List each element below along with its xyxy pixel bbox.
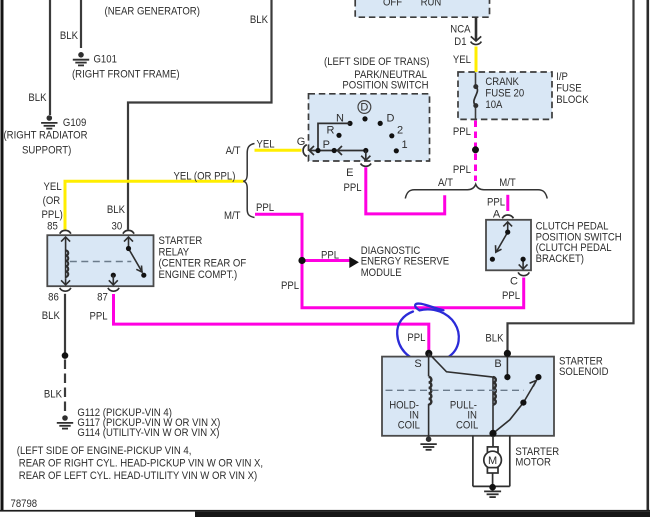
wire BLK from top right to solenoid B	[508, 0, 634, 352]
wire BLK to G101	[80, 0, 82, 48]
ground G112/G117/G114	[57, 415, 73, 428]
arrow left at K terminal	[309, 146, 314, 155]
svg-text:COIL: COIL	[398, 420, 420, 432]
contact dot N	[347, 121, 352, 126]
relay 87 contact with arrow	[111, 273, 116, 278]
svg-text:D1: D1	[454, 36, 466, 48]
starter motor frame	[473, 436, 510, 487]
svg-text:G109: G109	[63, 117, 86, 129]
svg-text:PPL: PPL	[281, 280, 299, 292]
blue hand-drawn circle around PPL	[397, 304, 459, 363]
connector arc A	[502, 215, 513, 218]
svg-text:COIL: COIL	[456, 420, 478, 432]
bottom page border line	[0, 510, 650, 512]
ignition switch box (top, cut off)	[355, 0, 489, 17]
svg-text:BLK: BLK	[42, 310, 61, 322]
wire YEL A/T branch to park/neutral switch	[255, 149, 302, 152]
contact dot 2	[389, 133, 394, 138]
svg-text:P: P	[323, 139, 330, 151]
left page border	[1, 0, 4, 511]
relay coil	[61, 237, 70, 285]
svg-text:STARTER: STARTER	[159, 235, 203, 247]
svg-text:SOLENOID: SOLENOID	[559, 366, 609, 378]
svg-text:BLK: BLK	[44, 389, 63, 401]
svg-text:PPL: PPL	[453, 126, 471, 138]
node junction on 86 wire	[62, 352, 69, 359]
ground G101	[73, 52, 89, 65]
svg-text:BLOCK: BLOCK	[556, 94, 589, 106]
svg-text:G101: G101	[94, 53, 117, 65]
wire BLK dashed to grounds	[64, 360, 66, 415]
contact dot R	[336, 133, 341, 138]
relay internal dashed line	[70, 261, 132, 263]
svg-text:SUPPORT): SUPPORT)	[22, 144, 71, 156]
solenoid switch	[493, 357, 537, 434]
wire PPL from P/N switch E	[366, 167, 445, 214]
svg-text:D: D	[360, 102, 368, 114]
svg-text:PPL: PPL	[256, 202, 274, 214]
svg-text:(RIGHT RADIATOR: (RIGHT RADIATOR	[4, 130, 88, 142]
svg-text:ENERGY RESERVE: ENERGY RESERVE	[361, 256, 450, 268]
svg-text:B: B	[494, 358, 501, 370]
svg-text:ENGINE COMPT.): ENGINE COMPT.)	[159, 269, 238, 281]
wire YEL D1 to fuse block	[475, 47, 478, 73]
wire switch common line	[310, 150, 366, 152]
connector arc 87	[108, 288, 119, 291]
svg-text:YEL: YEL	[44, 181, 62, 193]
park/neutral position switch box	[309, 94, 430, 161]
hold-in coil	[429, 353, 432, 437]
circled D indicator	[358, 101, 371, 114]
svg-text:R: R	[327, 125, 335, 137]
contact dot 1	[394, 148, 399, 153]
svg-text:YEL (OR PPL): YEL (OR PPL)	[174, 170, 236, 182]
svg-text:REAR OF RIGHT CYL. HEAD-PICKUP: REAR OF RIGHT CYL. HEAD-PICKUP VIN W OR …	[19, 457, 263, 469]
wire YEL relay 85 feed	[65, 181, 244, 229]
fuse CRANK FUSE 20 10A	[475, 73, 477, 85]
connector E arc	[361, 164, 372, 167]
svg-text:PPL: PPL	[343, 182, 361, 194]
svg-text:NCA: NCA	[450, 24, 471, 36]
svg-text:PPL: PPL	[487, 196, 505, 208]
wire from ignition switch	[475, 17, 478, 40]
svg-text:BLK: BLK	[107, 204, 126, 216]
svg-text:30: 30	[112, 221, 123, 233]
svg-text:CRANK: CRANK	[485, 76, 519, 88]
svg-text:(LEFT SIDE OF ENGINE-PICKUP VI: (LEFT SIDE OF ENGINE-PICKUP VIN 4,	[17, 445, 192, 457]
wire branch from N contact	[318, 123, 350, 150]
node junction with N branch	[315, 148, 320, 153]
I/P fuse block box	[458, 72, 552, 119]
svg-text:FUSE 20: FUSE 20	[485, 88, 524, 100]
node E junction	[363, 148, 368, 153]
svg-text:POSITION SWITCH: POSITION SWITCH	[342, 80, 428, 92]
svg-text:2: 2	[397, 125, 403, 137]
svg-text:87: 87	[97, 292, 108, 304]
ground G109	[41, 115, 57, 128]
svg-text:M: M	[488, 455, 497, 467]
node junction pull-in to motor	[489, 430, 496, 437]
wire BLK from top to relay terminal 30	[128, 0, 272, 230]
svg-text:BLK: BLK	[60, 30, 79, 42]
svg-text:C: C	[510, 276, 518, 288]
contact dot P	[332, 148, 337, 153]
svg-text:PPL: PPL	[502, 290, 520, 302]
wire BLK to G109	[49, 0, 51, 115]
svg-text:FUSE: FUSE	[556, 83, 582, 95]
node junction motor to ground	[489, 484, 496, 491]
svg-text:85: 85	[47, 221, 58, 233]
svg-text:PPL: PPL	[407, 332, 425, 344]
right page border	[647, 0, 650, 510]
svg-text:N: N	[336, 112, 344, 124]
svg-text:PPL): PPL)	[42, 209, 63, 221]
node S terminal	[425, 350, 432, 357]
clutch pedal position switch box	[486, 220, 531, 270]
svg-text:BLK: BLK	[28, 92, 47, 104]
connector K arc	[303, 145, 307, 157]
brace split A/T / M/T (under fuse)	[405, 184, 547, 198]
node junction to DERM	[298, 257, 305, 264]
contact dot D	[378, 121, 383, 126]
wire BLK from 86 down	[64, 294, 66, 354]
svg-text:PPL: PPL	[453, 164, 471, 176]
svg-text:(NEAR GENERATOR): (NEAR GENERATOR)	[105, 6, 200, 18]
svg-text:YEL: YEL	[453, 54, 471, 66]
wire PPL branch to DERM	[302, 259, 350, 262]
pull-in coil with feed from S	[429, 353, 496, 433]
svg-text:RUN: RUN	[421, 0, 442, 8]
connector arc 85	[60, 230, 71, 233]
svg-text:E: E	[346, 167, 353, 179]
wire down to E with arrow	[365, 151, 367, 160]
ground below hold-in coil	[420, 436, 436, 449]
node B terminal	[504, 350, 511, 357]
wire PPL dashed below fuse	[474, 121, 477, 182]
svg-text:86: 86	[48, 292, 59, 304]
svg-text:BRACKET): BRACKET)	[536, 253, 584, 265]
svg-text:(RIGHT FRONT FRAME): (RIGHT FRONT FRAME)	[72, 69, 180, 81]
svg-text:REAR OF LEFT CYL. HEAD-UTILITY: REAR OF LEFT CYL. HEAD-UTILITY VIN W OR …	[19, 470, 257, 482]
svg-text:MOTOR: MOTOR	[515, 457, 551, 469]
svg-text:D: D	[387, 112, 395, 124]
svg-text:(LEFT SIDE OF TRANS): (LEFT SIDE OF TRANS)	[324, 56, 430, 68]
connector arc 30	[123, 230, 134, 233]
connector arc 86	[60, 288, 71, 291]
arrow left mid line	[337, 146, 342, 155]
solenoid internal dashed line	[386, 389, 525, 391]
svg-text:I/P: I/P	[556, 71, 568, 83]
svg-text:(CENTER REAR OF: (CENTER REAR OF	[159, 258, 247, 270]
svg-text:78798: 78798	[11, 498, 38, 510]
connector arc C	[518, 272, 529, 275]
svg-text:A: A	[493, 209, 501, 221]
clutch switch arm and contacts	[496, 222, 528, 269]
wire PPL M/T branch to clutch C net	[255, 214, 524, 308]
node junction on PPL fuse wire	[472, 146, 479, 153]
relay switch	[124, 237, 142, 272]
ground below motor	[484, 491, 501, 497]
svg-text:A/T: A/T	[438, 177, 453, 189]
starter relay box	[47, 235, 153, 286]
svg-text:MODULE: MODULE	[361, 267, 402, 279]
svg-text:OFF: OFF	[383, 0, 402, 8]
svg-text:PPL: PPL	[321, 250, 339, 262]
svg-text:1: 1	[402, 139, 408, 151]
svg-text:BLK: BLK	[250, 14, 269, 26]
brace split A/T / M/T (left)	[243, 144, 254, 218]
svg-text:M/T: M/T	[224, 210, 241, 222]
svg-text:10A: 10A	[485, 99, 503, 111]
starter solenoid box	[382, 357, 554, 436]
svg-text:A/T: A/T	[226, 145, 241, 157]
arrow to DERM	[349, 257, 359, 268]
svg-text:PPL: PPL	[89, 311, 107, 323]
svg-text:BLK: BLK	[485, 333, 504, 345]
bottom black bar	[195, 512, 650, 517]
svg-text:M/T: M/T	[499, 177, 516, 189]
svg-text:S: S	[414, 358, 421, 370]
connector D1 arc	[471, 42, 482, 45]
svg-text:(OR: (OR	[43, 195, 61, 207]
contact dot under circled D	[362, 116, 367, 121]
arrow down at D1	[471, 36, 481, 41]
wire PPL M/T branch to clutch A	[506, 195, 509, 211]
svg-text:G114 (UTILITY-VIN W OR VIN X): G114 (UTILITY-VIN W OR VIN X)	[77, 427, 219, 439]
wire PPL from relay 87 to solenoid S	[114, 294, 429, 352]
